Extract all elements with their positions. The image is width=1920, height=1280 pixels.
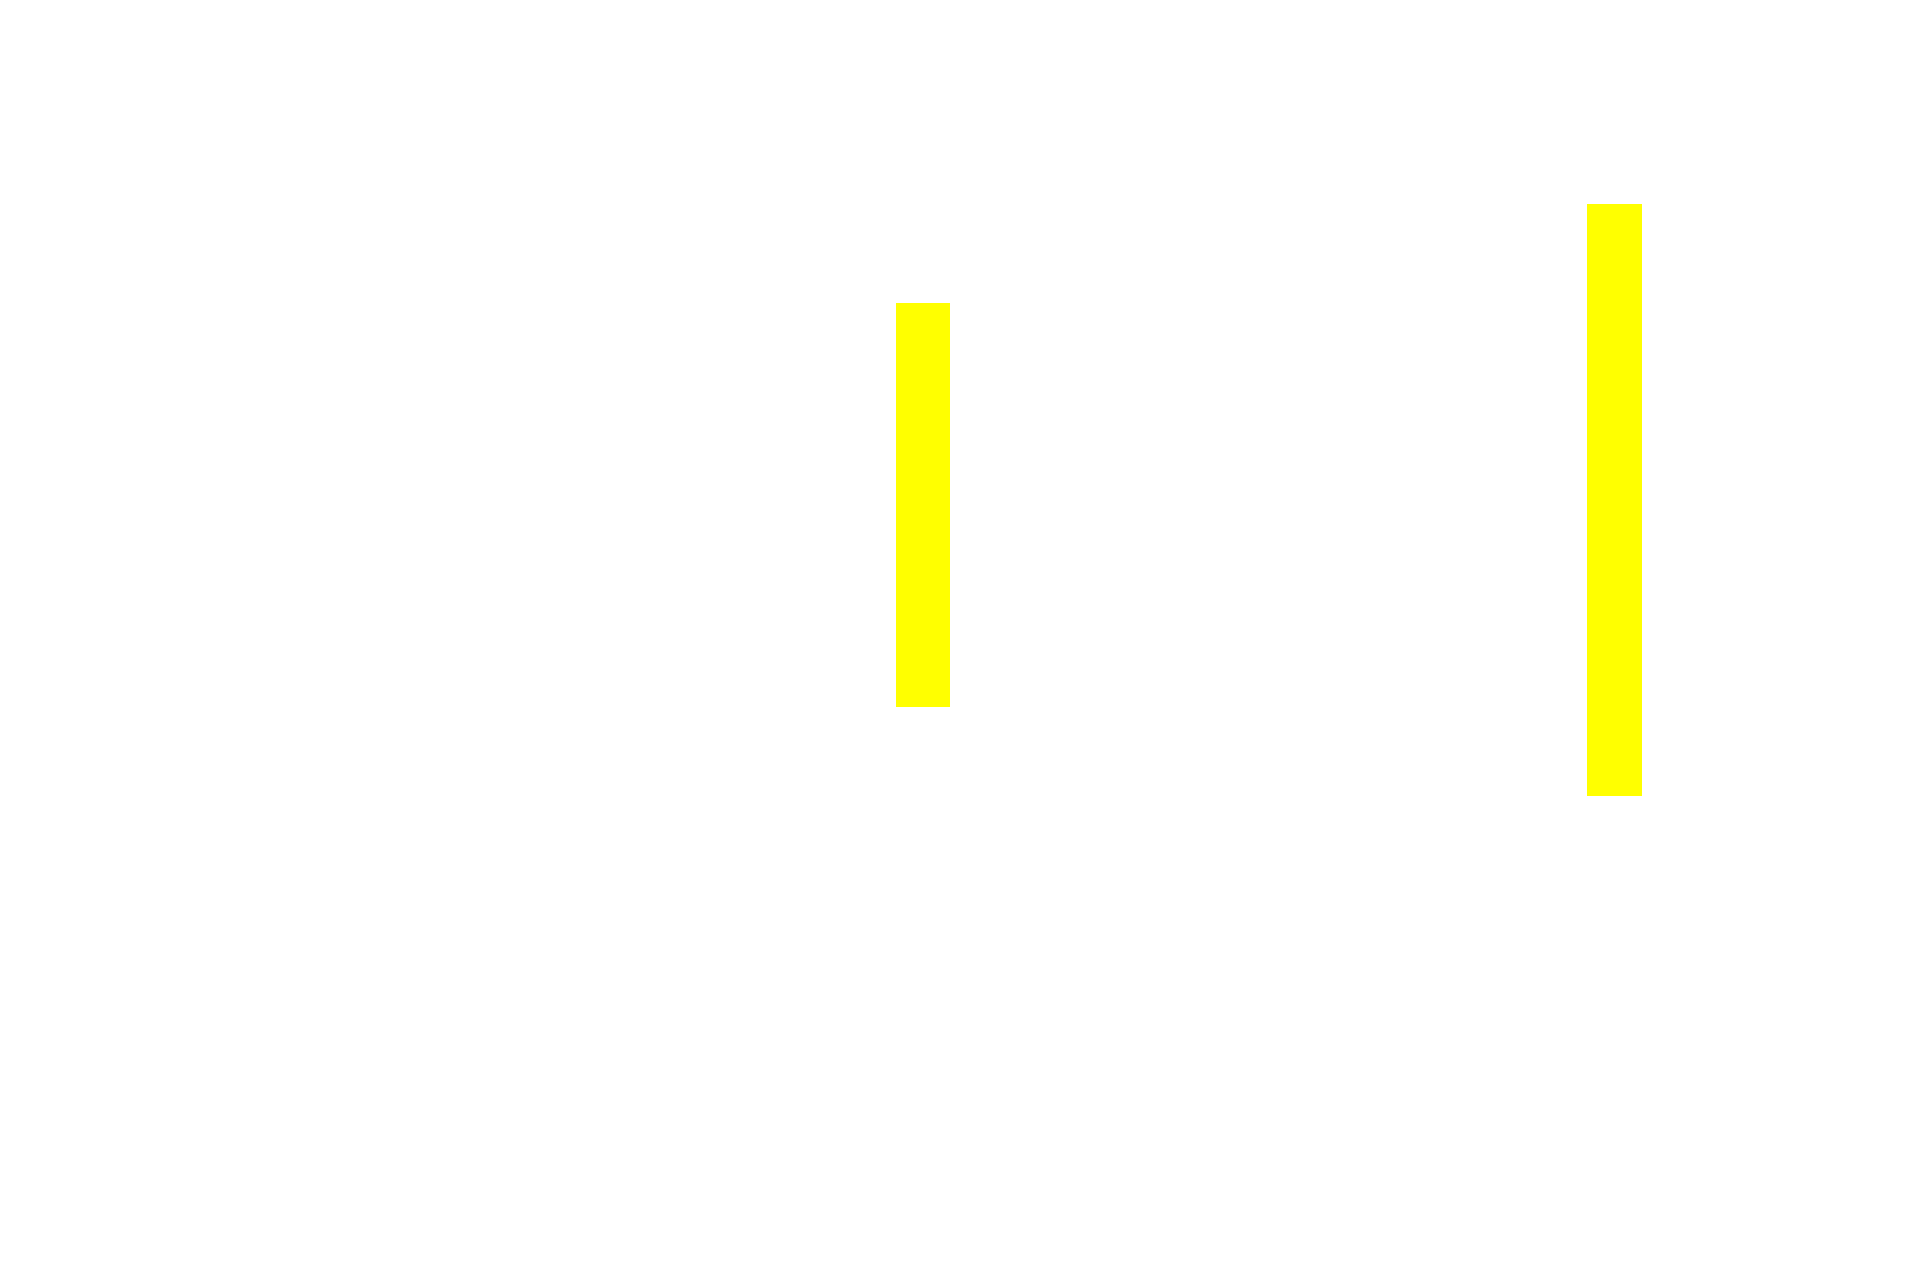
bar 1 (left yellow bar) — [896, 303, 950, 707]
bar 2 (right yellow bar) — [1587, 204, 1642, 796]
